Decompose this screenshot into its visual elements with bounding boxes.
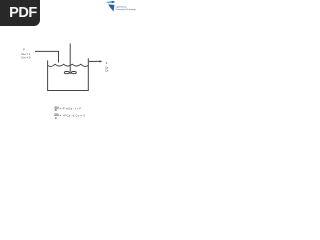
impeller blade left [64, 72, 69, 74]
tank [48, 58, 89, 90]
equation 2 fraction [54, 112, 59, 120]
outlet pipe [89, 60, 100, 62]
CPUT logo swoosh [106, 1, 115, 3]
svg-text:F: F [106, 61, 108, 65]
outlet arrowhead [100, 60, 103, 62]
equation 1 fraction [54, 105, 59, 112]
svg-text:dt: dt [55, 108, 57, 112]
liquid surface wave [48, 64, 89, 66]
CPUT logo sail [108, 4, 115, 11]
svg-text:University of Technology: University of Technology [116, 8, 137, 11]
svg-text:= +FCA -k CB = 0: = +FCA -k CB = 0 [60, 114, 86, 118]
inlet pipe [35, 51, 59, 62]
svg-text:F: F [23, 48, 25, 52]
stirrer shaft [69, 44, 71, 75]
PDF badge [0, 0, 40, 26]
svg-text:CBO = 0: CBO = 0 [21, 55, 30, 59]
svg-text:dt: dt [55, 116, 57, 120]
svg-text:= -F +kCA - t + F: = -F +kCA - t + F [60, 106, 82, 110]
impeller blade right [71, 72, 76, 74]
PDF badge label [3, 0, 43, 26]
diagram svg [0, 0, 149, 198]
